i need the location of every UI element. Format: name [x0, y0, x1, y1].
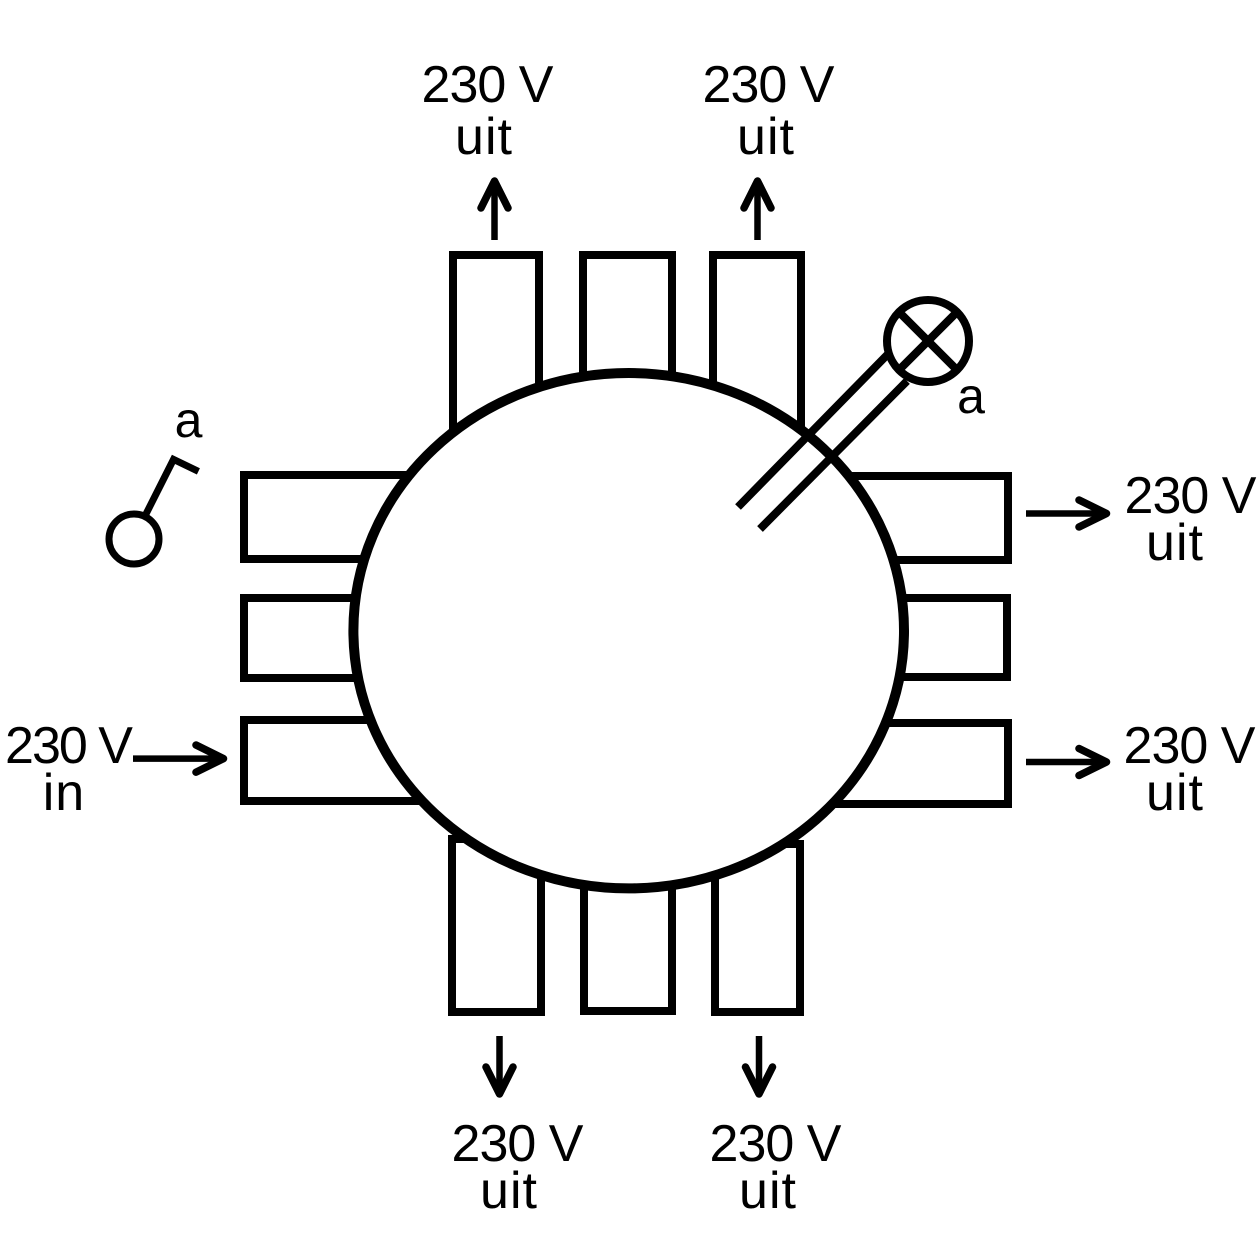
terminal L2 (left-middle) [244, 598, 426, 678]
terminal T3 (top-right) [713, 255, 801, 433]
junction box circle [353, 373, 904, 888]
svg-text:a: a [175, 392, 203, 448]
label 230 V uit (top-right) [703, 56, 835, 166]
arrow out right-top [1026, 500, 1107, 527]
arrow out right-bottom [1026, 749, 1107, 776]
svg-text:uit: uit [737, 108, 795, 166]
terminal L1 (left-top) [244, 475, 426, 559]
lamp a (circle) [887, 300, 969, 382]
label 230 V in (left) [5, 717, 133, 822]
svg-text:uit: uit [1146, 514, 1204, 572]
svg-text:uit: uit [455, 108, 513, 166]
arrow out bottom-left [486, 1036, 513, 1094]
switch a (lever) [146, 459, 198, 514]
terminal B1 (bottom-left) [452, 839, 541, 1012]
lamp a (cross stroke 1) [899, 312, 957, 370]
arrow out bottom-right [746, 1036, 773, 1094]
svg-text:230 V: 230 V [422, 56, 554, 114]
terminal L3 (left-bottom) [244, 720, 426, 801]
arrow out top-right [744, 181, 771, 240]
terminal R2 (right-middle) [830, 598, 1007, 677]
wire to lamp (lower line) [760, 381, 907, 529]
label 230 V uit (right-bottom) [1124, 717, 1256, 822]
svg-text:uit: uit [1146, 764, 1204, 822]
terminal T1 (top-left) [453, 255, 539, 455]
switch a (contact circle) [109, 514, 159, 564]
label 230 V uit (top-left) [422, 56, 554, 166]
svg-text:a: a [957, 368, 985, 424]
label 230 V uit (bottom-left) [452, 1115, 584, 1220]
terminal R1 (right-top) [830, 476, 1008, 560]
svg-text:uit: uit [480, 1162, 538, 1220]
lamp a (cross stroke 2) [899, 312, 957, 370]
svg-text:230 V: 230 V [703, 56, 835, 114]
svg-text:uit: uit [739, 1162, 797, 1220]
label 230 V uit (bottom-right) [710, 1115, 842, 1220]
terminal T2 (top-middle) [583, 255, 672, 455]
label 230 V uit (right-top) [1125, 467, 1257, 572]
wire to lamp (upper line) [738, 354, 888, 507]
arrow out top-left [481, 181, 508, 240]
svg-text:in: in [43, 764, 85, 822]
terminal B2 (bottom-middle) [584, 839, 672, 1011]
terminal R3 (right-bottom) [830, 723, 1008, 804]
arrow in left (230 V in) [133, 745, 224, 772]
terminal B3 (bottom-right) [715, 844, 800, 1012]
